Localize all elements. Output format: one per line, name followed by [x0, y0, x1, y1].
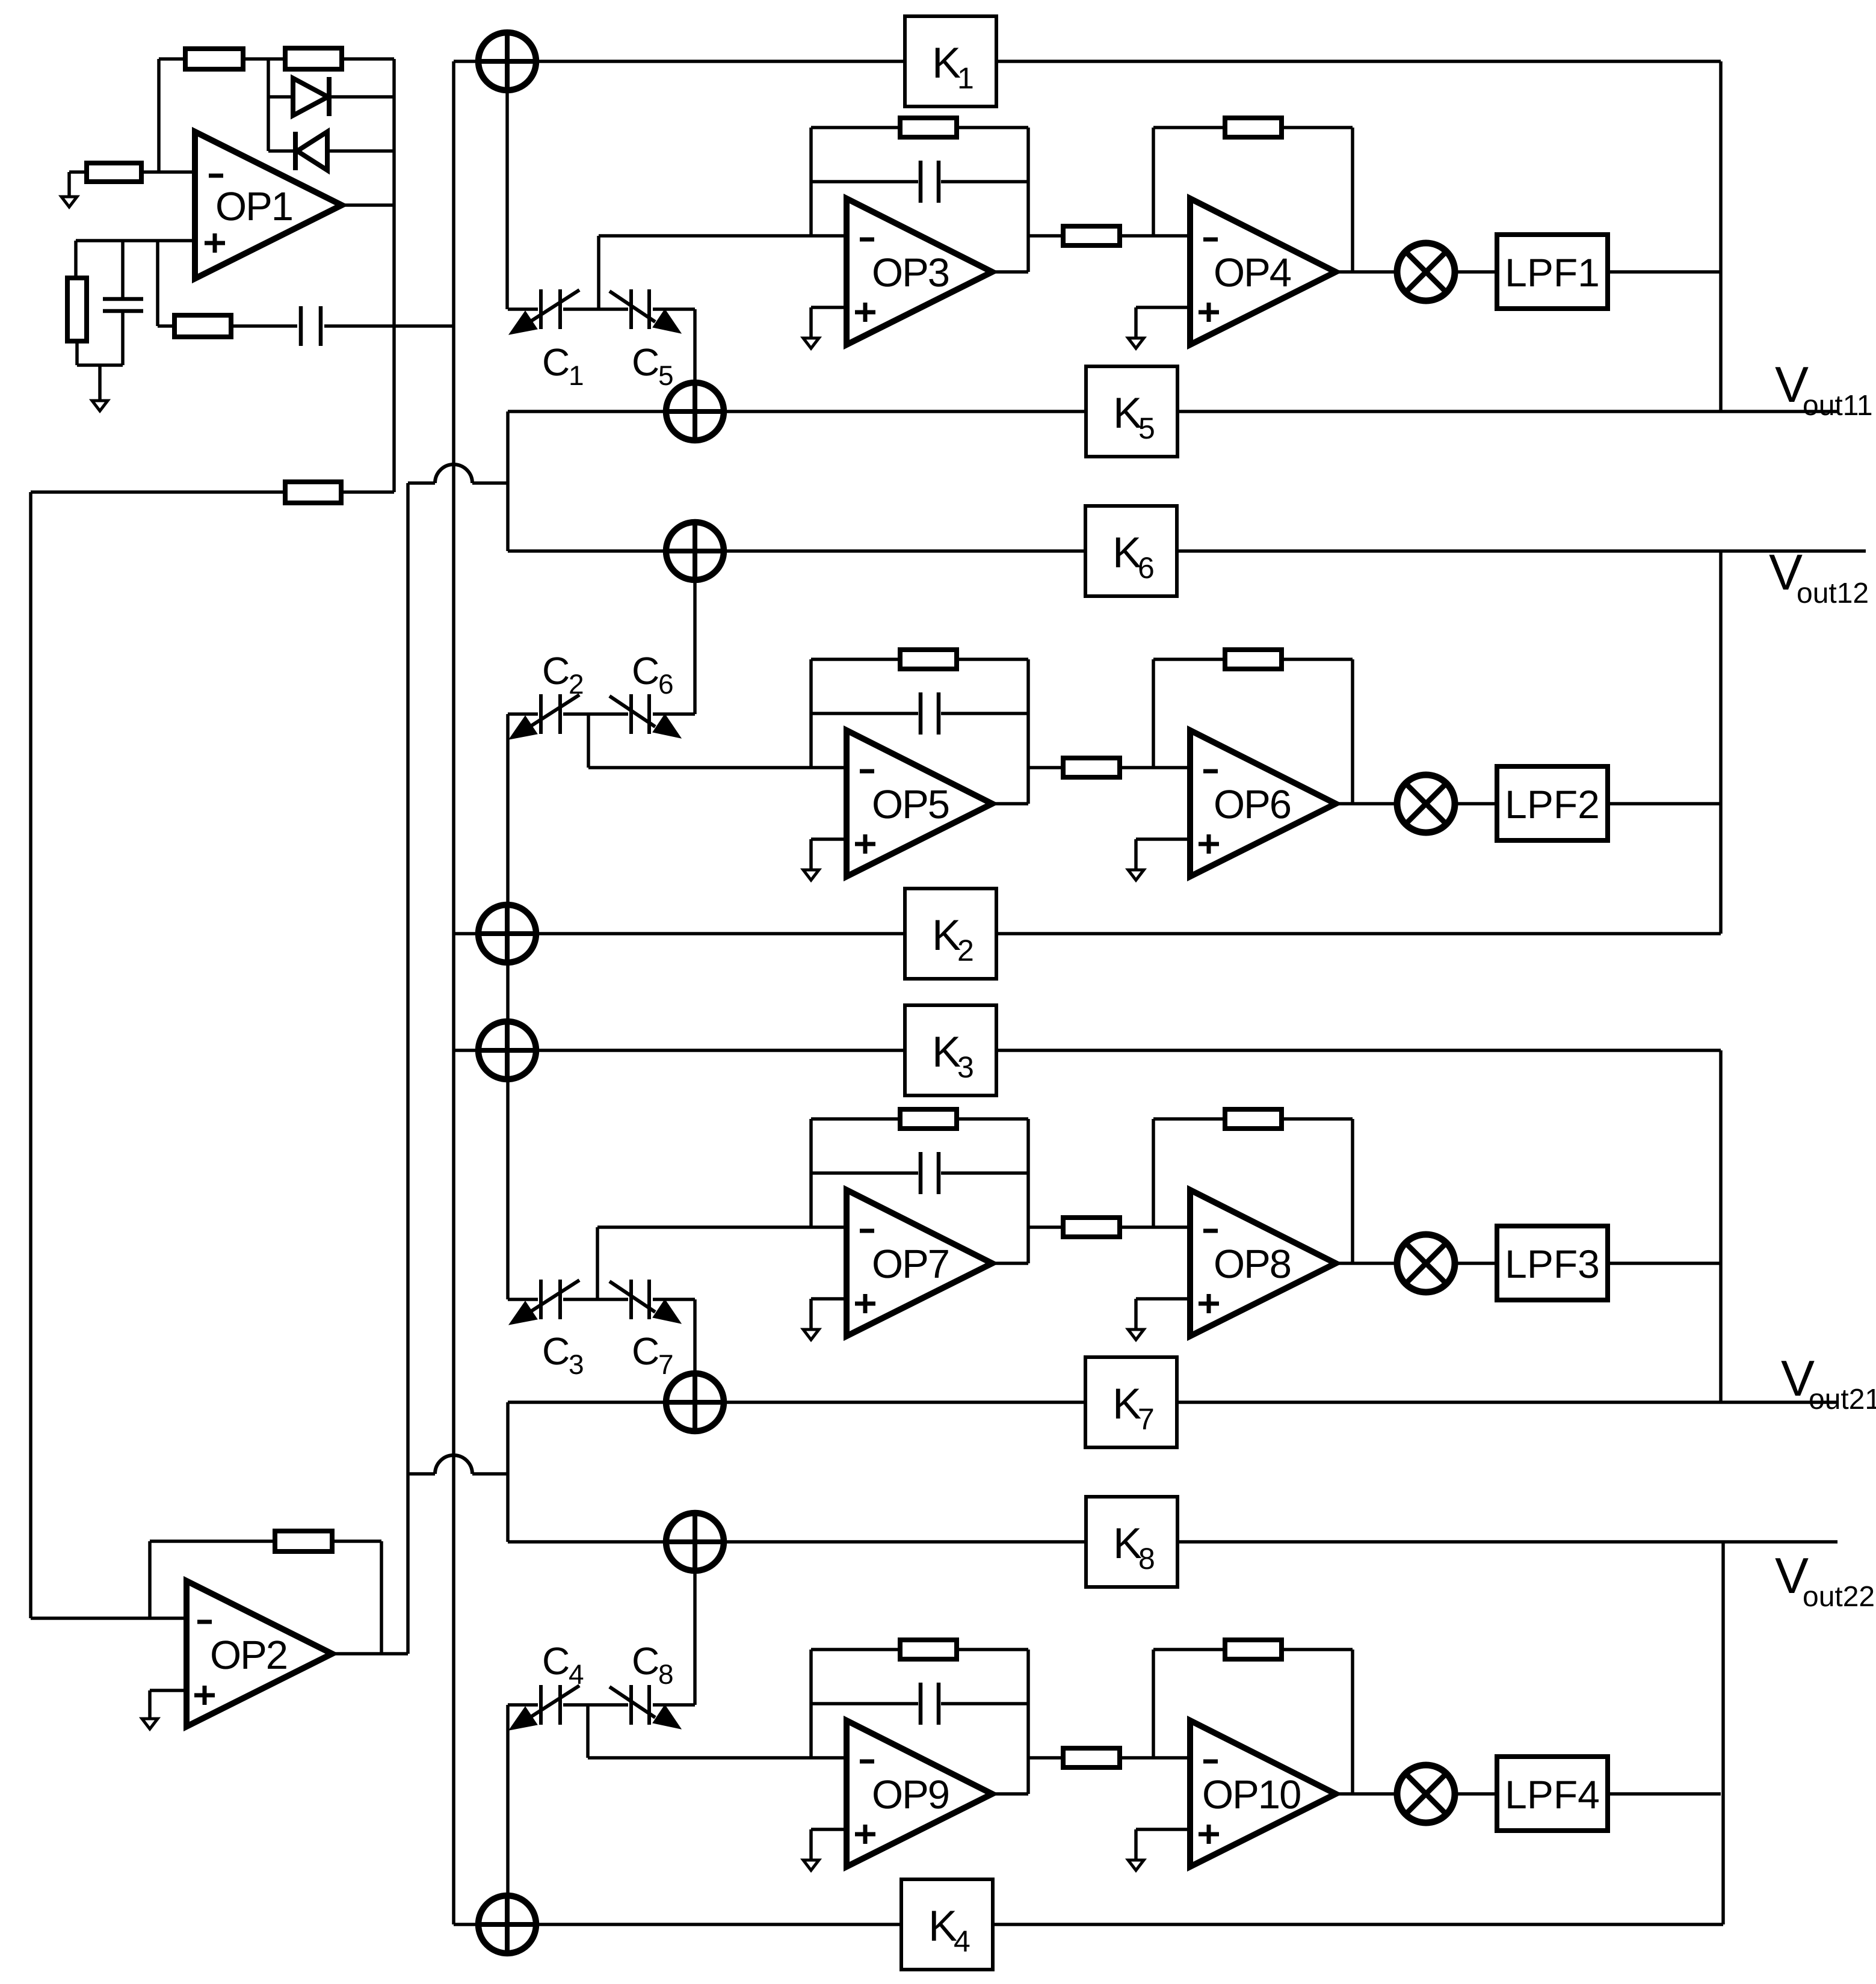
wire	[1136, 1828, 1190, 1831]
wire	[506, 714, 510, 1299]
label C1	[542, 340, 584, 391]
svg-text:C: C	[542, 340, 570, 384]
gain block K6	[1085, 506, 1177, 596]
wire	[392, 59, 396, 492]
diode D2	[295, 132, 327, 170]
wire	[1120, 1225, 1190, 1229]
wire	[1455, 1792, 1497, 1796]
wire	[508, 712, 538, 716]
svg-text:out21: out21	[1809, 1384, 1876, 1416]
svg-text:OP3: OP3	[872, 250, 949, 295]
wire	[941, 712, 1028, 715]
svg-text:C: C	[542, 1639, 570, 1683]
wire	[941, 1171, 1028, 1175]
wire	[809, 1119, 813, 1227]
wire	[98, 365, 102, 401]
svg-text:3: 3	[957, 1050, 974, 1084]
wire	[811, 306, 847, 309]
wire	[811, 658, 900, 661]
wire	[811, 1828, 847, 1831]
svg-text:LPF4: LPF4	[1505, 1772, 1600, 1817]
wire	[1136, 837, 1190, 841]
svg-text:OP9: OP9	[872, 1772, 949, 1817]
wire	[341, 490, 394, 494]
wire	[724, 410, 1086, 413]
label C5	[632, 340, 674, 391]
multiplier X4	[1397, 1765, 1455, 1823]
wire	[1177, 410, 1839, 413]
wire	[1608, 1262, 1721, 1265]
wire	[1136, 306, 1190, 309]
svg-text:6: 6	[1138, 551, 1155, 585]
wire	[454, 60, 478, 63]
svg-text:4: 4	[569, 1659, 584, 1690]
label C3	[542, 1329, 584, 1380]
wire	[957, 658, 1028, 661]
variable capacitor C1	[509, 289, 579, 334]
op-amp OP10	[1190, 1721, 1336, 1867]
wire	[1336, 1792, 1397, 1796]
wire	[506, 411, 510, 551]
wire	[508, 1400, 666, 1404]
label C4	[542, 1639, 584, 1690]
wire	[1120, 766, 1190, 769]
wire	[508, 1540, 666, 1544]
gain block K8	[1086, 1497, 1177, 1587]
feedback resistor R_OP3	[900, 118, 957, 137]
wire	[31, 1616, 187, 1620]
wire	[1177, 1400, 1837, 1404]
wire	[809, 1829, 813, 1860]
ground	[61, 197, 77, 207]
ground	[1128, 1329, 1144, 1340]
wire	[1028, 1225, 1063, 1229]
wire	[1336, 802, 1397, 806]
feedback resistor R_OP9	[900, 1640, 957, 1659]
feedback capacitor C_OP9	[921, 1683, 939, 1725]
svg-text:7: 7	[658, 1349, 674, 1380]
resistor R_OP3OP4	[1063, 226, 1120, 245]
wire	[536, 1049, 905, 1052]
wire	[508, 1703, 538, 1707]
wire	[1026, 1119, 1030, 1263]
wire	[157, 59, 161, 172]
wire	[156, 241, 159, 326]
svg-text:OP10: OP10	[1202, 1772, 1300, 1817]
wire	[996, 932, 1721, 935]
op-amp OP7	[847, 1190, 992, 1336]
wire	[508, 549, 666, 553]
summing junction S1	[478, 32, 536, 90]
svg-text:C: C	[542, 649, 570, 692]
variable capacitor C5	[609, 289, 681, 333]
wire	[1608, 270, 1721, 274]
ground	[92, 401, 108, 411]
summing junction S7	[666, 1513, 724, 1571]
feedback resistor R_OP4	[1225, 118, 1282, 137]
wire	[811, 1117, 900, 1121]
wire	[996, 60, 1721, 63]
wire	[563, 712, 628, 716]
wire	[1351, 128, 1354, 272]
wire	[231, 324, 297, 328]
ground	[803, 338, 819, 348]
wire	[809, 839, 813, 870]
wire	[536, 1923, 901, 1926]
gain block K7	[1085, 1357, 1177, 1447]
wire	[1134, 839, 1138, 870]
wire	[505, 90, 509, 309]
svg-text:2: 2	[957, 934, 974, 967]
wire	[809, 1650, 813, 1758]
svg-text:LPF1: LPF1	[1505, 250, 1600, 295]
wire	[148, 1690, 152, 1719]
svg-text:K: K	[932, 1028, 961, 1076]
svg-text:K: K	[1113, 1520, 1142, 1568]
wire	[452, 61, 455, 1924]
wire	[653, 712, 695, 716]
svg-text:5: 5	[658, 360, 674, 391]
label C6	[632, 649, 674, 700]
svg-text:K: K	[1112, 1380, 1141, 1428]
wire	[811, 1648, 900, 1651]
multiplier X3	[1397, 1234, 1455, 1292]
wire	[811, 1702, 918, 1705]
svg-text:LPF2: LPF2	[1505, 782, 1600, 827]
feedback capacitor C_OP5	[921, 692, 939, 735]
wire	[1153, 658, 1225, 661]
svg-text:3: 3	[569, 1349, 584, 1380]
svg-text:8: 8	[1138, 1542, 1155, 1576]
svg-text:1: 1	[569, 360, 584, 391]
wire	[332, 1539, 381, 1543]
svg-text:C: C	[542, 1329, 570, 1373]
wire	[588, 766, 847, 769]
low-pass filter LPF3	[1497, 1226, 1608, 1300]
wire	[1177, 1540, 1837, 1544]
variable capacitor C6	[609, 694, 681, 738]
wire	[327, 149, 394, 153]
low-pass filter LPF4	[1497, 1757, 1608, 1831]
ground	[1128, 338, 1144, 348]
wire	[342, 203, 394, 207]
wire	[941, 1702, 1028, 1705]
wire	[1026, 128, 1030, 272]
svg-text:K: K	[932, 39, 961, 87]
wire	[809, 1299, 813, 1329]
svg-text:out12: out12	[1797, 578, 1869, 609]
wire	[506, 1402, 510, 1542]
wire jumper	[408, 1455, 508, 1474]
wire	[1336, 270, 1397, 274]
wire	[1134, 307, 1138, 338]
svg-text:out22: out22	[1803, 1581, 1875, 1613]
wire	[74, 241, 78, 278]
wire	[1282, 1117, 1353, 1121]
wire	[31, 490, 285, 494]
wire	[563, 307, 628, 311]
wire	[1152, 1119, 1155, 1227]
wire	[406, 483, 410, 1654]
svg-text:C: C	[632, 1329, 659, 1373]
op-amp OP1	[195, 132, 342, 279]
resistor R5	[174, 315, 231, 337]
op-amp OP8	[1190, 1190, 1336, 1336]
wire	[1026, 1650, 1030, 1794]
wire	[69, 170, 87, 174]
feedback resistor R_OP5	[900, 650, 957, 669]
wire	[1351, 659, 1354, 804]
svg-text:OP1: OP1	[215, 184, 292, 229]
svg-text:OP7: OP7	[872, 1242, 949, 1287]
svg-text:OP2: OP2	[210, 1633, 287, 1678]
wire	[693, 1299, 697, 1373]
wire	[724, 549, 1085, 553]
svg-text:5: 5	[1138, 411, 1155, 445]
svg-text:LPF3: LPF3	[1505, 1242, 1600, 1286]
wire	[506, 1705, 510, 1896]
gain block K4	[901, 1879, 993, 1970]
variable capacitor C3	[509, 1280, 579, 1325]
variable capacitor C7	[609, 1280, 681, 1323]
wire	[992, 270, 1028, 274]
svg-text:1: 1	[957, 61, 974, 95]
wire	[77, 363, 123, 367]
svg-text:C: C	[632, 649, 659, 692]
wire	[454, 932, 478, 935]
wire	[342, 57, 394, 61]
svg-text:out11: out11	[1803, 390, 1873, 422]
wire	[1721, 1542, 1725, 1924]
ground	[1128, 870, 1144, 880]
wire	[1026, 659, 1030, 804]
svg-text:OP4: OP4	[1214, 250, 1291, 295]
wire	[332, 1652, 408, 1656]
wire	[653, 307, 695, 311]
wire	[957, 1648, 1028, 1651]
wire	[324, 324, 454, 328]
diode D1	[293, 77, 329, 116]
svg-text:8: 8	[658, 1659, 674, 1690]
wire	[1719, 1050, 1723, 1402]
wire	[536, 932, 905, 935]
capacitor Cb	[301, 306, 321, 346]
wire	[597, 1225, 847, 1229]
svg-text:OP8: OP8	[1214, 1242, 1291, 1287]
variable capacitor C8	[609, 1685, 681, 1729]
wire	[693, 580, 697, 714]
wire	[148, 1541, 152, 1618]
svg-text:6: 6	[658, 668, 674, 700]
wire	[693, 1571, 697, 1705]
label C8	[632, 1639, 674, 1690]
wire	[563, 1298, 628, 1301]
op-amp OP2	[187, 1581, 332, 1727]
resistor R_OP7OP8	[1063, 1218, 1120, 1237]
feedback resistor R_OP6	[1225, 650, 1282, 669]
wire	[159, 57, 185, 61]
feedback resistor R_OP10	[1225, 1640, 1282, 1659]
wire	[1608, 1792, 1721, 1796]
wire	[29, 492, 32, 1618]
wire	[1152, 659, 1155, 768]
feedback capacitor C_OP7	[921, 1152, 939, 1194]
summing junction S4	[478, 905, 536, 963]
wire	[1153, 1648, 1225, 1651]
svg-text:C: C	[632, 1639, 659, 1683]
svg-text:OP5: OP5	[872, 782, 949, 827]
wire	[599, 234, 847, 238]
wire	[811, 712, 918, 715]
wire	[268, 149, 295, 153]
wire	[809, 307, 813, 338]
wire	[1028, 766, 1063, 769]
wire	[75, 341, 79, 365]
wire	[809, 659, 813, 768]
wire	[1153, 1117, 1225, 1121]
wire	[150, 1689, 187, 1692]
ground	[803, 1860, 819, 1870]
feedback resistor R_OP8	[1225, 1109, 1282, 1129]
summing junction S5	[478, 1021, 536, 1079]
resistor R3	[87, 163, 141, 182]
wire	[454, 1049, 478, 1052]
node Vout11	[1775, 356, 1873, 422]
wire	[1455, 270, 1497, 274]
op-amp OP9	[847, 1721, 992, 1867]
label C7	[632, 1329, 674, 1380]
resistor R1	[185, 49, 243, 69]
wire	[1282, 126, 1353, 129]
multiplier X2	[1397, 775, 1455, 833]
summing junction S8	[478, 1896, 536, 1953]
wire	[811, 837, 847, 841]
wire	[536, 60, 905, 63]
wire	[121, 311, 125, 365]
wire	[811, 1171, 918, 1175]
wire	[809, 128, 813, 236]
gain block K5	[1086, 366, 1177, 457]
wire	[811, 180, 918, 183]
op-amp OP3	[847, 199, 992, 345]
wire	[1134, 1829, 1138, 1860]
wire	[1120, 234, 1190, 238]
resistor R6	[285, 482, 341, 503]
wire	[1719, 61, 1723, 411]
label C2	[542, 649, 584, 700]
low-pass filter LPF2	[1497, 766, 1608, 840]
node Vout21	[1781, 1350, 1876, 1416]
wire	[1719, 551, 1723, 934]
low-pass filter LPF1	[1497, 235, 1608, 309]
wire jumper	[408, 464, 508, 483]
wire	[724, 1540, 1086, 1544]
wire	[1282, 658, 1353, 661]
wire	[508, 1298, 538, 1301]
wire	[1028, 234, 1063, 238]
wire	[76, 239, 195, 242]
wire	[508, 410, 666, 413]
wire	[811, 126, 900, 129]
wire	[67, 172, 71, 197]
resistor R2	[285, 48, 342, 69]
wire	[992, 802, 1028, 806]
svg-text:K: K	[928, 1902, 957, 1950]
wire	[992, 1262, 1028, 1265]
svg-text:C: C	[632, 340, 659, 384]
wire	[586, 1705, 590, 1758]
feedback resistor R_OP7	[900, 1109, 957, 1129]
wire	[957, 1117, 1028, 1121]
summing junction S2	[666, 383, 724, 440]
wire	[454, 1923, 478, 1926]
ground	[803, 870, 819, 880]
multiplier X1	[1397, 243, 1455, 301]
wire	[1153, 126, 1225, 129]
wire	[243, 57, 285, 61]
wire	[693, 309, 697, 383]
node Vout22	[1775, 1547, 1875, 1613]
wire	[563, 1703, 628, 1707]
feedback capacitor C_OP3	[921, 161, 939, 203]
wire	[158, 324, 174, 328]
wire	[380, 1541, 383, 1654]
wire	[588, 1756, 847, 1760]
svg-text:2: 2	[569, 668, 584, 700]
variable capacitor C4	[509, 1685, 579, 1730]
wire	[596, 1227, 599, 1299]
wire	[992, 1792, 1028, 1796]
wire	[996, 1049, 1721, 1052]
node Vout12	[1769, 544, 1869, 609]
op-amp OP5	[847, 730, 992, 876]
svg-text:7: 7	[1138, 1402, 1155, 1436]
wire	[1028, 1756, 1063, 1760]
resistor R_OP9OP10	[1063, 1748, 1120, 1767]
wire	[1455, 802, 1497, 806]
wire	[993, 1923, 1723, 1926]
wire	[587, 714, 590, 768]
gain block K3	[905, 1005, 996, 1095]
wire	[508, 307, 538, 311]
wire	[1152, 1650, 1155, 1758]
op-amp OP6	[1190, 730, 1336, 876]
wire	[1336, 1262, 1397, 1265]
op-amp OP4	[1190, 199, 1336, 345]
wire	[121, 241, 125, 299]
svg-text:K: K	[1113, 389, 1142, 437]
svg-text:OP6: OP6	[1214, 782, 1291, 827]
wire	[597, 236, 600, 309]
ground	[142, 1719, 158, 1729]
summing junction S6	[666, 1373, 724, 1431]
resistor R7	[275, 1531, 332, 1551]
gain block K2	[905, 889, 996, 979]
capacitor Ca	[103, 299, 143, 311]
wire	[724, 1400, 1085, 1404]
svg-text:4: 4	[954, 1924, 970, 1958]
wire	[1608, 802, 1721, 806]
resistor R4	[67, 278, 87, 341]
wire	[653, 1703, 695, 1707]
wire	[1351, 1119, 1354, 1263]
wire	[1351, 1650, 1354, 1794]
wire	[1136, 1297, 1190, 1301]
ground	[803, 1329, 819, 1340]
wire	[1134, 1299, 1138, 1329]
ground	[1128, 1860, 1144, 1870]
wire	[150, 1539, 275, 1543]
